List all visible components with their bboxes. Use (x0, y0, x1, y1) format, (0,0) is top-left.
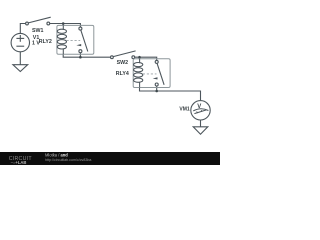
svg-text:http://circuitlab.com/c/cv83ba: http://circuitlab.com/c/cv83ba (45, 158, 91, 162)
svg-text:SW1: SW1 (32, 28, 44, 34)
svg-text:V: V (197, 104, 201, 110)
svg-text:VM1: VM1 (179, 106, 190, 112)
svg-text:SW2: SW2 (117, 60, 129, 66)
svg-text:RLY2: RLY2 (39, 39, 52, 45)
svg-text:~=+LAB: ~=+LAB (11, 160, 27, 165)
svg-text:RLY4: RLY4 (116, 71, 129, 77)
